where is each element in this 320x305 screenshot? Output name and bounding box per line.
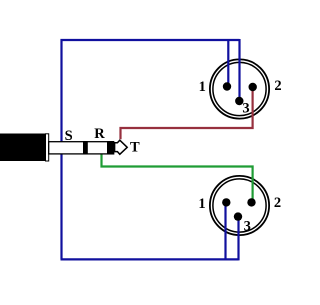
TRS plug P1 collar	[46, 134, 49, 161]
J2 pin 3 contact dot	[234, 212, 242, 220]
TRS plug P1 ring-tip separator band	[107, 141, 114, 155]
TRS plug P1 sleeve-ring separator band	[83, 141, 88, 155]
svg-text:1: 1	[199, 79, 206, 95]
TRS plug P1 body	[0, 134, 46, 162]
wire: blue drop from top run to J1 pin 1	[227, 40, 229, 87]
XLR connector J1 outer circle (top)	[210, 59, 269, 118]
svg-text:3: 3	[244, 218, 251, 234]
wire: blue riser from J2 pin 3 down to bottom run	[237, 217, 239, 261]
svg-text:2: 2	[274, 195, 281, 211]
wire: blue riser from J2 pin 1 down to bottom run	[224, 202, 226, 259]
J2 pin 1 contact dot	[222, 198, 230, 206]
svg-text:2: 2	[274, 78, 281, 94]
wire: green ring net from plug ring to J2 pin 2	[102, 154, 253, 202]
wire: blue sleeve net, top run from sleeve up and across to J1	[62, 40, 240, 259]
wire: blue drop from top run end to J1 pin 3	[238, 39, 240, 101]
svg-text:S: S	[65, 128, 73, 144]
J1 pin 2 contact dot	[249, 83, 257, 91]
XLR connector J2 inner circle (bottom)	[213, 179, 266, 232]
svg-text:3: 3	[242, 100, 249, 116]
TRS plug P1 tip arrow	[115, 140, 128, 154]
J1 pin 3 contact dot	[235, 97, 243, 105]
XLR connector J2 outer circle (bottom)	[210, 176, 269, 235]
TRS plug P1 shaft (sleeve/ring barrel)	[49, 142, 114, 154]
XLR connector J1 inner circle (top)	[213, 62, 266, 115]
wire: red tip net from plug tip to J1 pin 2	[121, 87, 253, 139]
svg-text:T: T	[130, 140, 140, 156]
wire: blue sleeve net, bottom run across to J2	[61, 258, 239, 260]
J1 pin 1 contact dot	[223, 82, 231, 90]
svg-text:R: R	[94, 126, 105, 142]
svg-text:1: 1	[198, 196, 205, 212]
J2 pin 2 contact dot	[247, 198, 255, 206]
